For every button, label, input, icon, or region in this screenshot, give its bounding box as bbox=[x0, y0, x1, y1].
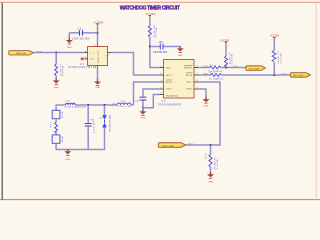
svg-text:R24: R24 bbox=[210, 65, 217, 67]
resistor R wdi pulldown (vertical) bbox=[205, 152, 219, 169]
capacitor C11 CWD bbox=[135, 97, 146, 102]
capacitor C16 bbox=[85, 120, 96, 134]
svg-text:5: 5 bbox=[197, 87, 198, 89]
wire WDI pin down to port4 bbox=[186, 82, 220, 145]
ground left of C9 bbox=[66, 38, 73, 49]
node LC cap branch bbox=[87, 104, 89, 106]
wire node to ground bbox=[142, 108, 144, 112]
wire SET0 to LC node bbox=[134, 82, 160, 105]
svg-text:1/16W: 1/16W bbox=[63, 66, 65, 76]
resistor R31 zigzag bbox=[50, 121, 57, 133]
TVS diode D2 bbox=[100, 114, 112, 132]
ground at U5 GND bbox=[203, 97, 210, 108]
svg-text:R25: R25 bbox=[210, 73, 217, 75]
resistor R wdo series (horizontal) bbox=[209, 73, 223, 81]
U5 pin numbers bbox=[161, 66, 198, 95]
svg-text:GND: GND bbox=[208, 181, 213, 183]
svg-text:0.1UF 50V 10%: 0.1UF 50V 10% bbox=[153, 52, 167, 54]
ground under U4 bbox=[94, 79, 101, 89]
resistor R wdo pullup (vertical) bbox=[272, 50, 282, 63]
wire C9 to ground bbox=[68, 33, 70, 40]
node wdi pulldown bbox=[210, 144, 212, 146]
wire pulldown R to ground bbox=[210, 167, 212, 174]
svg-text:5: 5 bbox=[95, 45, 96, 47]
svg-text:10.0K: 10.0K bbox=[62, 135, 64, 142]
svg-text:0.0 1/16W 5%: 0.0 1/16W 5% bbox=[209, 78, 223, 80]
wire node to pulldown R bbox=[210, 145, 212, 154]
wire power to R series bbox=[149, 17, 151, 26]
svg-text:▸I: ▸I bbox=[90, 51, 94, 54]
port WDT_RST output bbox=[246, 66, 266, 71]
wire U4 out to U5 SET1 bbox=[111, 53, 159, 76]
wire box2 to bottom rail bbox=[55, 143, 57, 150]
svg-text:VDD: VDD bbox=[166, 67, 172, 69]
wire pullup R to node bbox=[225, 64, 227, 67]
ground LC rail bbox=[64, 149, 71, 161]
svg-text:1/16W: 1/16W bbox=[280, 54, 282, 64]
wire cap branch upper bbox=[87, 105, 89, 123]
svg-text:GND: GND bbox=[204, 106, 209, 108]
svg-text:GND: GND bbox=[98, 57, 100, 63]
wire C11 to gnd node bbox=[142, 100, 144, 107]
wire CWD pin to C11 bbox=[143, 89, 159, 97]
wire cap branch lower bbox=[87, 126, 89, 149]
ground right of C10 bbox=[177, 46, 184, 57]
resistor box R30 bbox=[52, 110, 64, 119]
svg-text:R27: R27 bbox=[205, 152, 207, 158]
svg-text:GND: GND bbox=[67, 47, 72, 49]
no-connect X on U4 pin 3 bbox=[81, 57, 84, 60]
wire WDO pin to R bbox=[199, 74, 211, 76]
wire LC bottom rail bbox=[56, 149, 104, 151]
node U4 VCC tap bbox=[97, 32, 99, 34]
wire port1 to U4 bbox=[34, 52, 84, 54]
svg-text:WDT_EN: WDT_EN bbox=[16, 53, 26, 55]
svg-text:4: 4 bbox=[85, 51, 86, 53]
svg-text:VCC: VCC bbox=[98, 49, 100, 55]
svg-text:3: 3 bbox=[85, 57, 86, 59]
power VCC1V8 above pullup R bbox=[220, 40, 230, 43]
wire power to pullup R bbox=[225, 44, 227, 57]
U5 pin stubs bbox=[159, 68, 199, 95]
svg-text:0.1uF 16V: 0.1uF 16V bbox=[93, 120, 95, 133]
port WDT_WDO output bbox=[290, 73, 310, 78]
wire R to ground bbox=[55, 76, 57, 81]
wire gnd stem LC bbox=[67, 150, 69, 152]
node VDD decouple tap bbox=[149, 46, 151, 48]
svg-text:VM: VM bbox=[112, 103, 116, 105]
wire power to wdo pullup R bbox=[273, 39, 275, 51]
svg-text:1/16W: 1/16W bbox=[232, 54, 234, 64]
power VCC3R3 top of U4 bbox=[94, 22, 104, 25]
wire U5 GND pin to ground bbox=[199, 89, 206, 99]
svg-text:9: 9 bbox=[161, 93, 162, 95]
capacitor C10 bbox=[153, 42, 167, 54]
wire LC left branch bbox=[55, 105, 57, 111]
power VCC3R3 top-center bbox=[146, 14, 156, 17]
svg-text:GND: GND bbox=[178, 55, 183, 57]
wire zigzag to box2 bbox=[55, 131, 57, 135]
svg-text:1/16W: 1/16W bbox=[156, 28, 158, 38]
title WATCHDOG TIMER CIRCUIT bbox=[120, 5, 180, 11]
svg-text:GND: GND bbox=[186, 88, 192, 90]
svg-text:GND: GND bbox=[65, 159, 70, 161]
wire tvs branch lower bbox=[104, 127, 106, 150]
wire tvs branch upper bbox=[104, 105, 106, 116]
inductor L2 bbox=[117, 101, 131, 108]
wire RESET pin to R bbox=[199, 67, 210, 69]
wire node to C9 bbox=[69, 32, 79, 34]
node wdo pullup bbox=[273, 74, 275, 76]
resistor box R32 bbox=[52, 135, 64, 143]
svg-text:4: 4 bbox=[161, 87, 162, 89]
svg-text:0.1UF 16V 10%: 0.1UF 16V 10% bbox=[72, 38, 89, 40]
svg-text:RST: RST bbox=[233, 66, 239, 68]
svg-text:GND: GND bbox=[54, 87, 59, 89]
svg-text:WDT_WDI: WDT_WDI bbox=[163, 145, 175, 147]
svg-text:3: 3 bbox=[161, 80, 162, 82]
power VCC3R3 far right bbox=[270, 36, 280, 39]
svg-text:SET1: SET1 bbox=[166, 75, 173, 77]
resistor R series VDD (vertical) bbox=[148, 25, 158, 38]
svg-text:WDO: WDO bbox=[281, 73, 287, 75]
ground wdi pulldown bbox=[207, 172, 214, 183]
wire WDO long to port3 bbox=[222, 74, 291, 76]
port WDT_EN input bbox=[9, 51, 34, 56]
svg-text:GND: GND bbox=[141, 118, 146, 120]
node CWD gnd bbox=[142, 107, 144, 109]
wire C10 to ground bbox=[179, 47, 181, 49]
svg-text:10.0K: 10.0K bbox=[62, 111, 64, 118]
svg-text:R31: R31 bbox=[50, 121, 52, 127]
svg-text:STWD100NYWY3F: STWD100NYWY3F bbox=[68, 67, 97, 69]
svg-text:PESD5V0L1BA: PESD5V0L1BA bbox=[109, 114, 112, 132]
svg-text:2: 2 bbox=[161, 73, 162, 75]
resistor R pulldown (vertical) bbox=[55, 64, 65, 77]
svg-text:WATCHDOG TIMER CIRCUIT: WATCHDOG TIMER CIRCUIT bbox=[120, 5, 180, 11]
wire thermal pad to gnd node bbox=[143, 95, 159, 108]
capacitor C9 bbox=[72, 28, 89, 40]
resistor R reset pullup (vertical) bbox=[225, 52, 234, 67]
svg-text:RESET: RESET bbox=[184, 67, 193, 69]
svg-text:2.2UH 1.5A: 2.2UH 1.5A bbox=[117, 105, 131, 108]
ground under C11 bbox=[139, 109, 146, 119]
svg-text:Thermal Pad: Thermal Pad bbox=[166, 95, 178, 98]
svg-text:WDT_WDO: WDT_WDO bbox=[293, 75, 305, 77]
svg-text:SET0: SET0 bbox=[166, 82, 173, 84]
svg-text:▸R: ▸R bbox=[90, 58, 94, 61]
svg-text:WDI: WDI bbox=[188, 143, 194, 145]
svg-text:8: 8 bbox=[197, 66, 198, 68]
wire VCC to U4 pin5 bbox=[97, 25, 99, 44]
wire LC top rail bbox=[56, 104, 66, 106]
wire node down to R bbox=[55, 53, 57, 65]
wire R down to VDD pin bbox=[150, 37, 159, 67]
svg-text:2.2UH 1.5A 806 20%: 2.2UH 1.5A 806 20% bbox=[64, 106, 86, 109]
wire R to port2 bbox=[221, 67, 247, 69]
svg-text:1/16W: 1/16W bbox=[217, 159, 219, 169]
wire pullup R to wdo node bbox=[273, 62, 275, 75]
wire node to C10 bbox=[150, 46, 160, 48]
wire U4 GND pin down bbox=[97, 68, 99, 82]
svg-text:GND: GND bbox=[95, 87, 100, 89]
node LC tvs branch bbox=[104, 104, 106, 106]
wire box to zigzag bbox=[55, 119, 57, 123]
inductor L1 bbox=[64, 100, 86, 108]
svg-text:6: 6 bbox=[197, 80, 198, 82]
svg-text:7: 7 bbox=[197, 73, 198, 75]
svg-text:VCC3R3: VCC3R3 bbox=[94, 22, 104, 24]
node pulldown junction bbox=[55, 52, 57, 54]
IC U5 body bbox=[164, 60, 195, 99]
resistor R reset series (horizontal) bbox=[209, 65, 222, 73]
svg-text:WDI: WDI bbox=[187, 82, 193, 84]
svg-text:1: 1 bbox=[108, 55, 109, 57]
svg-text:WDT_RST: WDT_RST bbox=[249, 68, 261, 70]
U4 pin numbers bbox=[85, 45, 109, 70]
svg-text:TPS3430WDRCR: TPS3430WDRCR bbox=[158, 105, 182, 107]
node reset pullup bbox=[225, 67, 227, 69]
svg-text:1: 1 bbox=[161, 66, 162, 68]
op IC U4 body bbox=[88, 47, 108, 66]
svg-text:WDE: WDE bbox=[186, 75, 193, 77]
port WDT_WDI input bbox=[158, 143, 185, 148]
U4 pin stubs bbox=[84, 44, 111, 67]
svg-text:CWD: CWD bbox=[166, 88, 172, 90]
ground under pulldown R bbox=[53, 78, 60, 89]
